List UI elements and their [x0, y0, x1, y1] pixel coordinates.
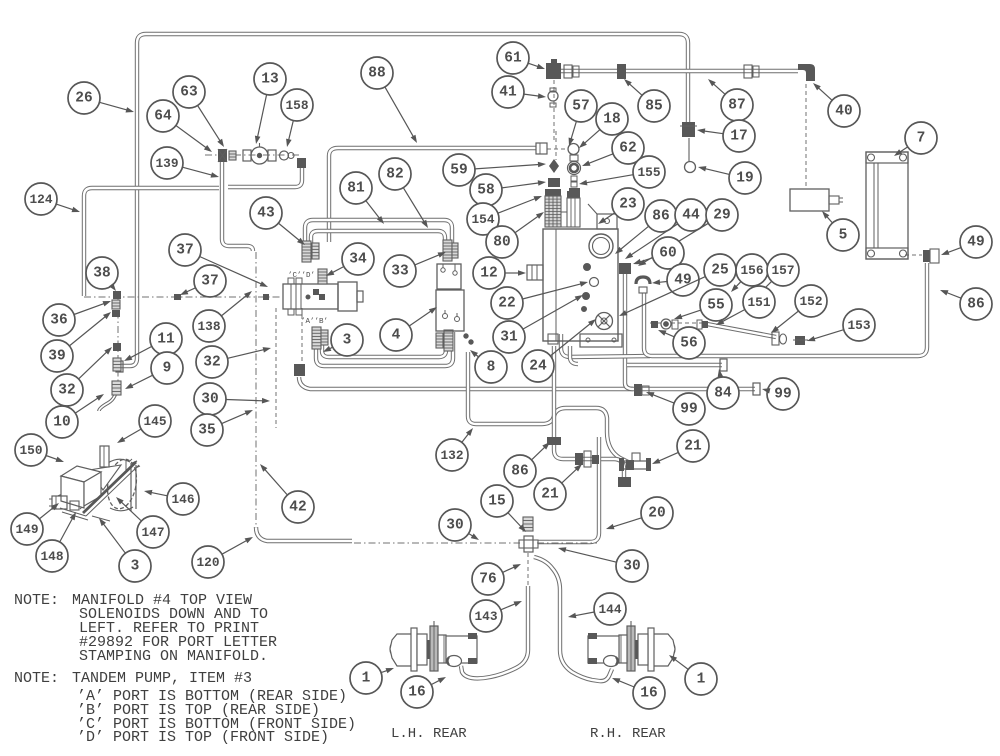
fitting 43 hose end C port — [302, 241, 311, 262]
callout balloon 60 — [633, 237, 684, 269]
valve 13 body — [251, 147, 268, 164]
svg-text:R.H. REAR: R.H. REAR — [590, 726, 666, 742]
svg-text:120: 120 — [196, 555, 219, 570]
callout balloon 138 — [193, 291, 252, 342]
callout balloon 64 — [147, 100, 212, 152]
callout balloon 3 — [323, 324, 363, 356]
elbow fitting 140 — [294, 364, 305, 376]
hose 84 run from valve — [627, 363, 722, 367]
shaft highlight — [86, 465, 139, 516]
svg-text:59: 59 — [450, 163, 467, 179]
callout balloon 56 — [658, 327, 705, 359]
callout balloon 155 — [579, 156, 665, 188]
callout balloon 22 — [491, 281, 588, 319]
pump inlet elbow curve — [99, 384, 117, 411]
callout balloon 153 — [807, 309, 875, 341]
hose 26 lower end cap — [116, 361, 123, 372]
valve 4 lower block — [436, 290, 464, 331]
hose 99 right end cap — [753, 383, 760, 395]
svg-text:76: 76 — [479, 572, 496, 588]
pump 150 cube front — [61, 476, 84, 508]
hose 85 collars left — [564, 65, 572, 78]
hose 88 end collar — [536, 143, 547, 154]
dashed line 55/56 cluster — [650, 322, 704, 324]
svg-text:19: 19 — [736, 171, 753, 187]
hose 83 lower loop outer — [316, 330, 453, 366]
callout balloon 37 — [169, 234, 268, 287]
fitting 49 right — [923, 250, 930, 262]
svg-text:13: 13 — [261, 72, 278, 88]
dashed manifold outline left — [275, 308, 277, 428]
collar fitting 64 — [229, 151, 236, 160]
callout balloon 4 — [380, 307, 437, 351]
callout balloon 150 — [15, 434, 64, 466]
fitting 38 on feed line — [113, 291, 121, 299]
svg-text:1: 1 — [697, 672, 706, 688]
svg-text:153: 153 — [847, 318, 870, 333]
fitting 85 mid collar — [617, 64, 626, 79]
fitting 55 ring — [661, 319, 671, 329]
fitting 17 — [682, 122, 695, 137]
svg-text:86: 86 — [511, 464, 528, 480]
fitting 37 node — [174, 294, 181, 300]
drive shaft dark bar — [83, 462, 136, 513]
valve 23 main block — [543, 229, 618, 341]
svg-text:152: 152 — [799, 294, 822, 309]
svg-text:11: 11 — [157, 332, 175, 348]
callout balloon 156 — [731, 254, 768, 292]
callout balloon 26 — [68, 82, 134, 114]
hose 87 collars right — [744, 65, 752, 78]
elbow fitting 61 — [546, 63, 561, 79]
callout balloon 1 — [669, 655, 717, 695]
callout balloon 49 — [941, 226, 992, 258]
frame center line right of tee 15 — [537, 542, 597, 544]
hose 144 run to RH chamber — [534, 557, 612, 681]
svg-text:37: 37 — [176, 243, 193, 259]
callout balloon 16 — [401, 676, 446, 708]
callout balloon 58 — [470, 174, 546, 206]
callout balloon 41 — [492, 76, 546, 108]
hose from elbow 158 down-left — [228, 167, 302, 187]
svg-text:NOTE:: NOTE: — [14, 592, 59, 609]
svg-text:149: 149 — [15, 522, 38, 537]
hose 120 corner run — [256, 527, 352, 541]
callout balloon 87 — [708, 79, 753, 121]
svg-text:22: 22 — [498, 296, 515, 312]
fitting 148 square — [70, 501, 79, 510]
callout balloon 25 — [619, 254, 736, 316]
callout balloon 21 — [652, 430, 709, 464]
hose 81 upper loop inner — [311, 231, 445, 244]
fitting 62 dark ring — [568, 162, 581, 175]
oil cooler 7 top band — [866, 152, 908, 163]
svg-text:3: 3 — [343, 333, 352, 349]
hose 124 run — [84, 188, 219, 296]
svg-text:STAMPING ON MANIFOLD.: STAMPING ON MANIFOLD. — [79, 648, 268, 665]
solenoid coil right (item 155) — [567, 191, 580, 198]
hose 139 branch down from tee — [222, 159, 253, 251]
callout balloon 154 — [467, 196, 542, 235]
svg-text:30: 30 — [201, 392, 218, 408]
oil cooler 7 corner bolts — [868, 154, 875, 161]
svg-text:5: 5 — [839, 228, 848, 244]
svg-text:61: 61 — [504, 51, 522, 67]
fitting 41 — [548, 91, 558, 101]
callout balloon 86 — [940, 288, 992, 320]
svg-text:87: 87 — [728, 98, 745, 114]
frame center line left of tee 15 — [354, 542, 520, 544]
tee 21 right cross — [622, 461, 650, 469]
callout balloon 43 — [250, 197, 305, 245]
callout balloon 32 — [51, 347, 112, 406]
callout balloon 8 — [470, 350, 507, 383]
callout balloon 88 — [361, 57, 417, 143]
svg-text:148: 148 — [40, 549, 63, 564]
hose loop under valve 23 bottom — [561, 334, 650, 357]
pump 150 cube top — [61, 466, 101, 482]
svg-text:35: 35 — [198, 423, 215, 439]
svg-text:55: 55 — [707, 298, 724, 314]
dashed link cooler 7 to fitting 49 — [905, 254, 922, 256]
manifold 4 top ports — [288, 278, 294, 284]
svg-text:37: 37 — [201, 274, 218, 290]
svg-text:40: 40 — [835, 104, 852, 120]
hose 143 run to LH chamber — [461, 586, 528, 678]
callout balloon 147 — [116, 497, 169, 548]
oil cooler 7 bottom band — [866, 248, 908, 259]
center line down to pump — [117, 297, 119, 386]
svg-text:80: 80 — [493, 235, 510, 251]
svg-text:82: 82 — [386, 167, 403, 183]
callout balloon 38 — [86, 257, 118, 291]
svg-text:138: 138 — [197, 319, 220, 334]
svg-text:34: 34 — [349, 252, 367, 268]
svg-text:99: 99 — [774, 387, 791, 403]
svg-text:44: 44 — [682, 208, 700, 224]
wire from fitting 17 down to fitting 19 — [688, 138, 690, 161]
callout balloon 31 — [493, 295, 583, 353]
svg-text:41: 41 — [499, 85, 517, 101]
callout balloon 37 — [180, 265, 226, 297]
svg-text:143: 143 — [474, 609, 497, 624]
solenoid coil right stripes — [570, 198, 572, 227]
callout balloon 5 — [822, 211, 859, 251]
solenoid coil left stripes — [548, 196, 550, 227]
svg-text:57: 57 — [572, 99, 589, 115]
elbow 60 — [619, 263, 631, 274]
callout balloon 21 — [534, 464, 582, 510]
callout balloon 40 — [813, 83, 860, 127]
svg-text:25: 25 — [711, 263, 728, 279]
svg-text:16: 16 — [640, 686, 657, 702]
svg-text:157: 157 — [771, 263, 794, 278]
dashed drop from fitting 41 — [553, 80, 555, 142]
svg-text:7: 7 — [917, 131, 926, 147]
callout balloon 143 — [470, 600, 522, 632]
callout balloon 30 — [558, 547, 648, 582]
callout balloon 42 — [260, 464, 314, 523]
callout balloon 132 — [436, 428, 473, 471]
svg-text:23: 23 — [619, 197, 636, 213]
callout balloon 80 — [486, 212, 544, 258]
callout balloon 13 — [254, 63, 286, 144]
svg-text:38: 38 — [93, 266, 110, 282]
callout balloon 144 — [568, 593, 626, 625]
callout balloon 99 — [762, 378, 799, 410]
svg-text:124: 124 — [29, 192, 52, 207]
collar 86 mid — [547, 437, 561, 445]
hose 82 upper loop outer — [305, 220, 452, 244]
manifold 4 end cap — [338, 282, 357, 311]
svg-text:154: 154 — [471, 212, 494, 227]
hose 151 — [707, 324, 776, 337]
callout balloon 82 — [379, 158, 428, 228]
svg-text:139: 139 — [155, 156, 178, 171]
callout balloon 19 — [698, 162, 761, 194]
callout balloon 63 — [173, 76, 224, 147]
mount plate 147 triangle — [89, 465, 121, 490]
svg-text:15: 15 — [488, 494, 505, 510]
dashed line above solenoid stack — [555, 131, 557, 160]
svg-text:32: 32 — [58, 383, 75, 399]
svg-text:9: 9 — [163, 361, 172, 377]
fitting 34 on manifold top — [318, 269, 327, 284]
fitting 57 collar — [570, 155, 578, 161]
callout balloon 124 — [25, 183, 80, 215]
svg-text:158: 158 — [285, 98, 308, 113]
lower loop right collar — [436, 333, 443, 348]
svg-text:145: 145 — [143, 414, 166, 429]
elbow fitting 40 — [798, 64, 815, 81]
upper loop right hose-end fitting — [443, 240, 452, 261]
oil cooler 7 inner tubes — [873, 163, 875, 248]
center line through valve 13 — [205, 154, 300, 156]
hose 88 run to valve — [329, 148, 536, 242]
callout balloon 44 — [625, 199, 707, 259]
svg-text:31: 31 — [500, 330, 518, 346]
svg-text:30: 30 — [623, 559, 640, 575]
callout balloon 59 — [443, 154, 546, 186]
coupling 149 — [52, 496, 67, 509]
svg-text:18: 18 — [603, 112, 620, 128]
callout balloon 158 — [281, 89, 313, 147]
hose 99 long low run from manifold elbow 140 — [299, 377, 755, 389]
frame rail upper — [58, 461, 137, 496]
fitting 155 collars — [571, 176, 577, 181]
hose 26 outer border run (left+top+right) — [121, 34, 688, 366]
valve 23 bottom bracket — [580, 334, 622, 347]
manifold 4 body — [283, 284, 338, 309]
svg-text:42: 42 — [289, 500, 306, 516]
callout balloon 62 — [582, 132, 644, 166]
fitting 56 square — [651, 321, 658, 328]
callout balloon 61 — [497, 42, 545, 74]
callout balloon 85 — [624, 79, 670, 122]
valve 23 port dot b — [583, 293, 590, 300]
valve 13 left tab — [243, 150, 251, 161]
hose riser from elbow 60 down to low run — [625, 274, 633, 389]
end fitting below tee 21 — [618, 477, 631, 487]
callout balloon 49 — [652, 264, 699, 296]
callout balloon 18 — [579, 103, 628, 148]
svg-text:58: 58 — [477, 183, 494, 199]
fitting 18 ring — [568, 144, 579, 155]
callout balloon 148 — [36, 512, 76, 572]
tee 15 stem — [523, 517, 533, 531]
fitting 99 on low run — [634, 384, 642, 396]
tee 21 left cluster — [575, 453, 583, 465]
svg-text:146: 146 — [171, 492, 194, 507]
callout balloon 157 — [759, 254, 799, 294]
fitting 36 on feed line — [112, 300, 120, 309]
callout balloon 57 — [565, 90, 597, 146]
valve 13 right tab — [268, 150, 276, 161]
callout balloon 15 — [481, 485, 526, 532]
svg-text:88: 88 — [368, 66, 385, 82]
callout balloon 1 — [350, 662, 394, 694]
callout balloon 29 — [638, 199, 738, 266]
svg-text:33: 33 — [391, 264, 408, 280]
fitting 32/11 on pump line — [113, 343, 121, 351]
valve 23 left tab (item 12) — [527, 265, 543, 280]
pressure switch 5 — [790, 189, 829, 211]
upper loop right collar — [452, 243, 458, 258]
svg-text:16: 16 — [408, 685, 425, 701]
callout balloon 99 — [646, 392, 705, 425]
callout balloon 32 — [196, 346, 271, 378]
valve 23 port ring (item 22) — [590, 278, 599, 287]
valve 23 port dot c — [582, 307, 587, 312]
callout balloon 39 — [41, 312, 111, 372]
svg-text:39: 39 — [48, 349, 65, 365]
svg-text:86: 86 — [652, 209, 669, 225]
callout balloon 36 — [43, 301, 111, 336]
callout balloon 3 — [99, 518, 151, 582]
svg-text:85: 85 — [645, 99, 662, 115]
svg-text:32: 32 — [203, 355, 220, 371]
hose 132 riser and S-run to tee 21 — [468, 352, 628, 462]
hose 84 right end cap — [720, 359, 727, 371]
callout balloon 17 — [697, 120, 755, 152]
svg-text:29: 29 — [713, 208, 730, 224]
dashed manifold outline right — [301, 308, 303, 362]
bracket post 145 — [100, 446, 109, 467]
callout balloon 76 — [472, 563, 521, 595]
svg-text:4: 4 — [392, 328, 401, 344]
svg-text:12: 12 — [480, 266, 497, 282]
valve 23 left foot — [548, 334, 558, 344]
tee fitting 63 — [218, 149, 227, 162]
svg-text:49: 49 — [967, 235, 984, 251]
svg-text:30: 30 — [446, 518, 463, 534]
callout balloon 24 — [522, 319, 596, 382]
svg-text:81: 81 — [347, 181, 365, 197]
callout balloon 11 — [124, 323, 182, 361]
svg-text:64: 64 — [154, 109, 172, 125]
svg-text:144: 144 — [598, 602, 621, 617]
callout balloon 33 — [384, 252, 446, 287]
fitting hose end D port — [312, 243, 319, 259]
svg-text:156: 156 — [740, 263, 763, 278]
svg-text:10: 10 — [53, 415, 70, 431]
pump skid lines — [60, 508, 86, 516]
hose 81 lower loop inner — [322, 332, 446, 357]
svg-text:’A’’B’: ’A’’B’ — [301, 318, 328, 326]
motor drum 146 — [104, 457, 140, 511]
svg-text:147: 147 — [141, 525, 164, 540]
svg-text:’C’’D’: ’C’’D’ — [288, 272, 315, 280]
pump 150 cube right — [84, 472, 101, 506]
svg-text:TANDEM PUMP, ITEM #3: TANDEM PUMP, ITEM #3 — [72, 670, 252, 687]
manifold 4 nub — [357, 291, 363, 302]
callout balloon 10 — [46, 394, 104, 438]
svg-text:63: 63 — [180, 85, 197, 101]
elbow fitting at hose 139 top — [297, 158, 306, 168]
block between coils — [561, 212, 567, 227]
svg-text:21: 21 — [684, 439, 702, 455]
fitting 19 circle — [685, 162, 696, 173]
svg-text:56: 56 — [680, 336, 697, 352]
valve 23 big port boss — [589, 234, 613, 258]
valve 4 upper block — [437, 264, 461, 289]
dashed drop from tee 15 — [527, 553, 529, 585]
svg-text:26: 26 — [75, 91, 92, 107]
svg-text:49: 49 — [674, 273, 691, 289]
L.H. rear brake chamber (items 1/16) — [390, 621, 477, 671]
oil cooler 7 shell — [866, 152, 908, 259]
svg-text:NOTE:: NOTE: — [14, 670, 59, 687]
svg-text:24: 24 — [529, 359, 547, 375]
valve 23 port dot a — [584, 264, 591, 271]
callout balloon 7 — [894, 122, 937, 156]
fitting 153 — [795, 336, 805, 345]
callout balloon 149 — [11, 503, 59, 545]
svg-text:151: 151 — [747, 295, 770, 310]
callout balloon 20 — [606, 497, 673, 529]
callout balloon 12 — [473, 257, 526, 289]
valve 23 top bracket — [597, 214, 617, 229]
center line left manifold feed — [84, 296, 283, 298]
dashed link hose 88 to fitting 18 — [547, 148, 566, 150]
hose 20 run — [538, 437, 599, 542]
svg-text:17: 17 — [730, 129, 747, 145]
hose 86 right riser and run — [644, 263, 927, 356]
svg-text:84: 84 — [714, 386, 732, 402]
hose 85/87 top run — [559, 69, 798, 73]
manifold 4 port dots — [313, 289, 319, 295]
dashed drop from elbow 40 to switch 5 — [805, 84, 807, 188]
callout balloon 34 — [326, 243, 374, 276]
fitting 8 node dots — [464, 334, 468, 338]
lower loop right hose-end fitting — [444, 330, 453, 351]
callout balloon 152 — [771, 285, 827, 333]
fitting 59 diamond — [549, 159, 559, 173]
swivel fitting 158 — [280, 151, 289, 160]
callout balloon 86 — [615, 200, 677, 254]
svg-text:155: 155 — [637, 165, 660, 180]
callout balloon 35 — [191, 410, 253, 446]
callout balloon 23 — [598, 188, 644, 224]
svg-text:150: 150 — [19, 443, 42, 458]
svg-text:132: 132 — [440, 448, 463, 463]
callout balloon 9 — [125, 352, 183, 389]
hose drop from low run through tee 21 left — [554, 346, 624, 477]
lower loop left hose-end fitting — [312, 327, 321, 349]
fitting node near manifold — [263, 294, 269, 300]
svg-text:60: 60 — [659, 246, 676, 262]
callout balloon 120 — [192, 537, 253, 578]
